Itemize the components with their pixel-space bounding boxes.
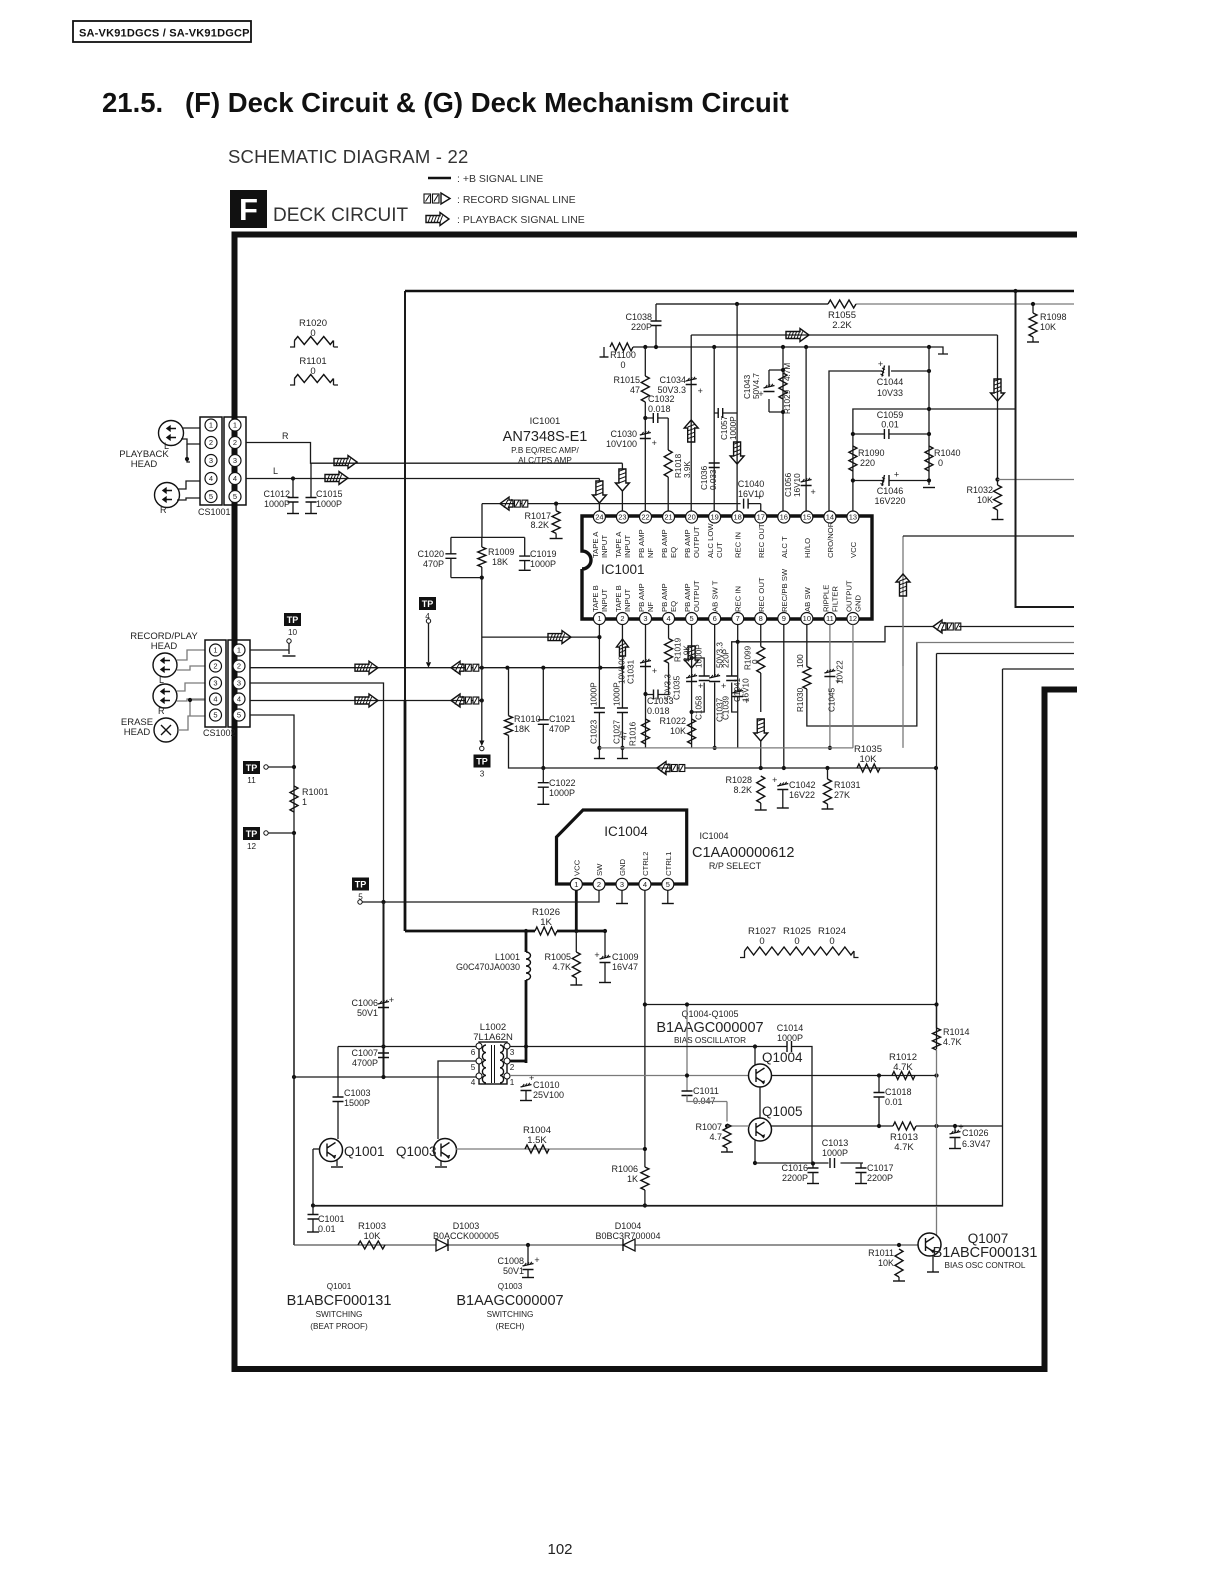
svg-text:IC1001: IC1001 <box>601 562 645 577</box>
IC1001 pin 22 <box>640 511 652 523</box>
svg-text:C1019: C1019 <box>530 549 557 559</box>
model number box <box>73 21 251 42</box>
svg-text:(RECH): (RECH) <box>496 1322 525 1331</box>
svg-text:220P: 220P <box>631 322 652 332</box>
resistor R1098 <box>1032 304 1034 342</box>
wire +B top rail <box>405 290 1074 293</box>
resistor R1005 <box>575 931 577 952</box>
wire C1020/R1009/C1019 rail <box>451 504 525 538</box>
capacitor C1027 <box>617 708 628 713</box>
wire main vertical from top border <box>404 291 406 700</box>
svg-text:220: 220 <box>860 458 875 468</box>
resistor R1003 <box>358 1241 385 1249</box>
IC1001 pin 12 <box>847 613 859 625</box>
svg-text:4: 4 <box>666 614 670 623</box>
svg-text:C1006: C1006 <box>351 998 378 1008</box>
wire playback L signal <box>246 478 599 480</box>
svg-text:R/P SELECT: R/P SELECT <box>709 861 762 871</box>
record arrow down pin18 <box>730 442 744 464</box>
svg-text:C1032: C1032 <box>648 394 675 404</box>
svg-text:1: 1 <box>302 797 307 807</box>
svg-text:C1043: C1043 <box>743 374 752 399</box>
svg-text:OUTPUT: OUTPUT <box>692 526 701 558</box>
svg-text:AN7348S-E1: AN7348S-E1 <box>503 429 588 445</box>
svg-text:12: 12 <box>247 842 257 851</box>
svg-text:C1031: C1031 <box>627 659 636 684</box>
svg-text:4: 4 <box>213 695 217 704</box>
svg-text:10V100: 10V100 <box>606 439 637 449</box>
svg-text:4: 4 <box>237 695 241 704</box>
svg-text:8.2K: 8.2K <box>733 785 752 795</box>
capacitor C1046 <box>853 471 929 485</box>
svg-text:+: + <box>534 1255 539 1265</box>
svg-text:3: 3 <box>213 679 217 688</box>
record arrow up pin2 <box>616 639 628 656</box>
test point TP3 <box>481 578 483 741</box>
svg-text:TP: TP <box>476 757 488 767</box>
svg-text:3: 3 <box>233 456 237 465</box>
svg-text:Q1004-Q1005: Q1004-Q1005 <box>681 1009 738 1019</box>
svg-text:C1018: C1018 <box>885 1087 912 1097</box>
transistor Q1003 <box>434 1139 457 1162</box>
wire pin19 branch <box>713 347 715 516</box>
resistor R1031 <box>824 779 832 804</box>
svg-text:Q1003: Q1003 <box>396 1144 437 1159</box>
svg-text:ALC LOW: ALC LOW <box>706 523 715 558</box>
svg-text:GND: GND <box>853 594 862 612</box>
IC1004 pin3 ground <box>621 891 623 904</box>
IC1001 pin 5 <box>686 613 698 625</box>
wire pin11 leg <box>829 625 831 748</box>
wire pin4 leg / resistor R1019 <box>668 625 670 695</box>
wire pin20 branch <box>690 335 692 516</box>
svg-text:B1AAGC000007: B1AAGC000007 <box>656 1020 763 1036</box>
svg-text:TP: TP <box>422 599 434 609</box>
capacitor C1034 <box>686 379 697 385</box>
svg-text:+: + <box>652 438 657 448</box>
resistor R1006 <box>641 1167 649 1190</box>
svg-text:5: 5 <box>237 711 241 720</box>
svg-text:15: 15 <box>803 513 811 522</box>
wire L1002 pin4 / bus <box>294 1076 476 1078</box>
wire CS1002 pin2 (record L) <box>250 667 623 669</box>
svg-text:1: 1 <box>213 646 217 655</box>
wire L1002 pin5 to Q1003 <box>438 1061 476 1139</box>
wire x936 gray lower <box>936 1050 938 1238</box>
wire CS1002 pin4 (record R) <box>250 700 482 702</box>
svg-text:R1028: R1028 <box>725 775 752 785</box>
svg-text:10K: 10K <box>878 1258 894 1268</box>
resistor R1012 <box>892 1072 915 1080</box>
IC1001 pin 10 <box>801 613 813 625</box>
legend record signal line <box>424 194 431 203</box>
svg-text:D1004: D1004 <box>615 1221 642 1231</box>
svg-text:+: + <box>810 487 815 497</box>
svg-text:10K: 10K <box>860 754 878 765</box>
capacitor C1022 <box>541 766 545 770</box>
wire Q1005 emitter down <box>754 1141 756 1164</box>
svg-text:C1003: C1003 <box>344 1088 371 1098</box>
record arrow left <box>451 661 464 674</box>
playback down arrow pin24 <box>592 481 606 503</box>
wire Q1005 emitter rail <box>772 1125 1003 1127</box>
resistor R1025 <box>781 947 818 955</box>
svg-text:SW: SW <box>595 863 604 876</box>
wire y642.5 to edge <box>916 642 1074 644</box>
record arrow left y768 <box>657 762 670 775</box>
svg-text:C1039: C1039 <box>722 695 731 720</box>
svg-text:24: 24 <box>595 513 603 522</box>
svg-text:CS1001: CS1001 <box>198 507 231 517</box>
svg-text:(BEAT PROOF): (BEAT PROOF) <box>310 1322 368 1331</box>
capacitor C1017 <box>860 1164 862 1169</box>
resistor R1011 <box>897 1243 901 1247</box>
wire head L to CS1001 <box>181 428 200 444</box>
svg-text:2200P: 2200P <box>867 1173 893 1183</box>
svg-text:R1010: R1010 <box>514 714 541 724</box>
capacitor C1015 <box>310 463 312 513</box>
IC1001 pin 23 <box>616 511 628 523</box>
svg-text:1000P: 1000P <box>530 559 556 569</box>
svg-text:1000P: 1000P <box>777 1033 803 1043</box>
svg-text:+: + <box>721 681 726 691</box>
svg-text:Q1005: Q1005 <box>762 1104 803 1119</box>
svg-text:16V220: 16V220 <box>874 496 905 506</box>
svg-text:+: + <box>652 666 657 676</box>
svg-text:1: 1 <box>233 421 237 430</box>
svg-text:C1011: C1011 <box>693 1086 719 1096</box>
svg-text:5: 5 <box>209 492 213 501</box>
svg-text:1000P: 1000P <box>316 499 342 509</box>
svg-text:1: 1 <box>237 646 241 655</box>
IC1004 pin 2 SW <box>593 878 605 890</box>
svg-text:102: 102 <box>547 1541 572 1558</box>
svg-text:16V10: 16V10 <box>742 678 751 702</box>
record arrow up pin20 <box>684 420 698 442</box>
connector CS1001 <box>200 417 222 505</box>
svg-text:5: 5 <box>233 492 237 501</box>
wires heads to CS1002 <box>177 650 205 670</box>
wire pin12 leg <box>852 625 854 748</box>
svg-text:Q1001: Q1001 <box>327 1282 352 1291</box>
wire pin8 leg / resistor R1099 <box>760 625 762 713</box>
svg-text:10: 10 <box>803 614 811 623</box>
svg-text:P.B EQ/REC AMP/: P.B EQ/REC AMP/ <box>511 446 579 455</box>
svg-text:GND: GND <box>618 858 627 876</box>
stub right of rail <box>929 347 943 354</box>
svg-text:PB AMP: PB AMP <box>683 529 692 558</box>
svg-text:11: 11 <box>247 776 256 785</box>
svg-text:C1010: C1010 <box>533 1080 560 1090</box>
resistor R1014 <box>933 1028 941 1050</box>
svg-text:L: L <box>273 466 278 476</box>
svg-text:R1040: R1040 <box>934 448 961 458</box>
wire L1002 pin3 <box>510 1046 645 1048</box>
svg-text:16V10: 16V10 <box>793 473 802 497</box>
svg-text:10V22: 10V22 <box>835 660 844 684</box>
svg-text:3: 3 <box>643 614 647 623</box>
svg-text:L1001: L1001 <box>495 952 520 962</box>
svg-text:0: 0 <box>759 936 764 947</box>
IC1001 pin 16 <box>778 511 790 523</box>
svg-text:R1030: R1030 <box>796 687 805 712</box>
svg-text:+: + <box>594 950 599 960</box>
svg-text:C1012: C1012 <box>263 489 290 499</box>
svg-text:C1007: C1007 <box>351 1048 378 1058</box>
wire CS1002 pin5 <box>250 715 294 1245</box>
svg-text:0.01: 0.01 <box>885 1097 903 1107</box>
capacitor C1001 <box>312 1206 314 1233</box>
IC1001 chip body <box>582 516 872 619</box>
svg-text:TP: TP <box>287 615 299 625</box>
wire L1002 pin6 <box>338 1046 476 1048</box>
resistor R1007 <box>723 1124 731 1148</box>
svg-text:1000P: 1000P <box>612 682 621 706</box>
svg-text:12: 12 <box>849 614 857 623</box>
capacitor C1020 <box>450 537 452 577</box>
wire bias top rail <box>645 1004 937 1006</box>
svg-text:CS1002: CS1002 <box>203 728 236 738</box>
svg-text:3: 3 <box>480 770 485 779</box>
resistor R1028 <box>757 776 765 803</box>
resistor R1004 <box>525 1145 549 1153</box>
svg-text:16V47: 16V47 <box>612 962 638 972</box>
record arrow right y637 <box>548 631 571 644</box>
IC1001 pin 9 <box>778 613 790 625</box>
svg-text:+: + <box>389 995 394 1005</box>
IC1001 pin 24 <box>593 511 605 523</box>
record/play head R <box>153 684 177 708</box>
svg-text:ALC/TPS AMP: ALC/TPS AMP <box>518 456 572 465</box>
svg-text:2: 2 <box>233 438 237 447</box>
svg-text:Q1001: Q1001 <box>344 1144 385 1159</box>
capacitor C1003 <box>337 1047 339 1140</box>
capacitor C1013 <box>830 1158 835 1168</box>
svg-text:C1059: C1059 <box>877 410 904 420</box>
capacitor C1023 <box>594 708 605 713</box>
resistor R1022 <box>688 719 696 744</box>
svg-text:6: 6 <box>471 1048 476 1057</box>
svg-text:C1008: C1008 <box>497 1256 524 1266</box>
svg-text:C1021: C1021 <box>549 714 576 724</box>
capacitor C1035 <box>686 676 697 682</box>
transistor Q1005 <box>749 1118 772 1141</box>
svg-text:C1057: C1057 <box>720 415 729 440</box>
svg-text:27K: 27K <box>834 790 850 800</box>
record arrow left y503.6 <box>500 497 513 510</box>
svg-text:REC/PB SW: REC/PB SW <box>780 568 789 612</box>
svg-text:CUT: CUT <box>715 542 724 558</box>
svg-text:1000P: 1000P <box>589 682 598 706</box>
svg-text:SA-VK91DGCS / SA-VK91DGCP: SA-VK91DGCS / SA-VK91DGCP <box>79 28 250 40</box>
svg-text:R: R <box>282 431 289 441</box>
erase head <box>154 718 178 742</box>
svg-text:CTRL2: CTRL2 <box>641 852 650 876</box>
svg-text:EQ: EQ <box>669 547 678 558</box>
svg-text:C1013: C1013 <box>822 1138 849 1148</box>
svg-text:1: 1 <box>574 880 578 889</box>
transistor Q1001 <box>320 1139 343 1162</box>
svg-text:R1006: R1006 <box>611 1164 638 1174</box>
wire pin14 branch / capacitor C1044 <box>829 371 929 516</box>
wire pin13 branch <box>853 409 1016 516</box>
test point TP12 <box>243 827 260 840</box>
svg-text:HEAD: HEAD <box>151 641 178 652</box>
svg-text:3: 3 <box>510 1048 515 1057</box>
svg-text:R1022: R1022 <box>659 716 686 726</box>
svg-text:D1003: D1003 <box>453 1221 480 1231</box>
svg-text:50V4.7: 50V4.7 <box>752 373 761 399</box>
svg-text:: PLAYBACK SIGNAL LINE: : PLAYBACK SIGNAL LINE <box>457 214 585 226</box>
svg-text:C1020: C1020 <box>417 549 444 559</box>
wire pin15 branch <box>805 347 807 516</box>
test point TP4 <box>419 597 436 610</box>
svg-text:4: 4 <box>471 1078 476 1087</box>
svg-text:ALC T: ALC T <box>780 536 789 558</box>
svg-text:OUTPUT: OUTPUT <box>844 580 853 612</box>
svg-text:C1044: C1044 <box>877 377 904 387</box>
wire pin10 leg / resistor R1030 <box>807 625 917 727</box>
IC1001 pin 15 <box>801 511 813 523</box>
resistor R1055 <box>828 300 856 308</box>
svg-text:+: + <box>878 359 883 369</box>
resistor R1027 <box>740 951 745 958</box>
IC1001 pin 18 <box>732 511 744 523</box>
record arrow up x903 <box>896 574 910 596</box>
svg-text:220P: 220P <box>722 648 731 668</box>
svg-text:Q1007: Q1007 <box>968 1231 1009 1246</box>
svg-text:2: 2 <box>597 880 601 889</box>
svg-text:4: 4 <box>233 474 237 483</box>
gray ground bus under IC <box>599 747 853 749</box>
resistor R1026 <box>535 927 557 935</box>
record arrow down pin8 <box>754 719 768 741</box>
resistor R1017 <box>555 504 557 511</box>
wire pin7 leg <box>737 625 739 642</box>
wire pin7 to right <box>738 627 933 642</box>
IC1004 pin 4 CTRL2 <box>639 878 651 890</box>
svg-text:+: + <box>698 681 703 691</box>
svg-text:3: 3 <box>237 679 241 688</box>
svg-text:1000P: 1000P <box>549 788 575 798</box>
svg-text:25V100: 25V100 <box>533 1090 564 1100</box>
svg-text:TAPE A: TAPE A <box>591 531 600 558</box>
svg-text:R1032: R1032 <box>966 485 993 495</box>
svg-text:8: 8 <box>759 614 763 623</box>
svg-text:R: R <box>160 505 167 515</box>
svg-text:47: 47 <box>620 730 629 740</box>
diode D1003 <box>436 1239 448 1251</box>
svg-text:10K: 10K <box>670 726 686 736</box>
svg-text:20: 20 <box>687 513 695 522</box>
capacitor C1042 <box>777 784 788 790</box>
svg-text:10K: 10K <box>364 1231 382 1242</box>
svg-text:14: 14 <box>826 513 834 522</box>
svg-text:EQ: EQ <box>669 601 678 612</box>
svg-text:4: 4 <box>209 474 213 483</box>
wire pin1 leg <box>598 625 600 759</box>
svg-text:PB AMP: PB AMP <box>637 529 646 558</box>
resistor R1001 <box>290 786 298 812</box>
record/play head L <box>153 653 177 677</box>
svg-text:SWITCHING: SWITCHING <box>487 1310 534 1319</box>
playback arrow on R wire <box>334 456 357 469</box>
svg-text:SWITCHING: SWITCHING <box>316 1310 363 1319</box>
svg-text:(F) Deck Circuit & (G) Deck Me: (F) Deck Circuit & (G) Deck Mechanism Ci… <box>185 87 789 118</box>
capacitor C1019 <box>524 537 526 569</box>
svg-text:4700P: 4700P <box>352 1058 378 1068</box>
svg-text:C1058: C1058 <box>695 695 704 720</box>
wire Q1001 base vertical <box>312 1149 314 1206</box>
svg-text:F: F <box>239 192 258 227</box>
wire C1020/R1009 bottom rail <box>451 577 482 579</box>
svg-text:R1001: R1001 <box>302 787 329 797</box>
capacitor C1056 <box>801 480 812 486</box>
svg-text:C1014: C1014 <box>777 1023 804 1033</box>
svg-text:1: 1 <box>597 614 601 623</box>
svg-text:50V3.3: 50V3.3 <box>657 385 686 395</box>
wire record line y637 <box>482 636 601 638</box>
wire pin22 branch / resistor R1015 <box>644 347 646 516</box>
resistor R1010 <box>508 668 510 716</box>
svg-text:PB AMP: PB AMP <box>660 583 669 612</box>
test point TP11 <box>243 761 260 774</box>
svg-text:R1090: R1090 <box>858 448 885 458</box>
svg-text:9: 9 <box>782 614 786 623</box>
capacitor C1039 <box>732 642 738 712</box>
svg-text:2200P: 2200P <box>782 1173 808 1183</box>
svg-text:Q1003: Q1003 <box>498 1282 523 1291</box>
connector CS1002 <box>205 640 226 727</box>
svg-text:REC IN: REC IN <box>734 586 743 612</box>
capacitor C1058 <box>692 658 705 712</box>
svg-text:7: 7 <box>736 614 740 623</box>
wire x1002 loop <box>313 669 1074 1206</box>
capacitor C1057 <box>714 412 737 414</box>
capacitor C1038 <box>655 304 657 347</box>
record arrow right <box>355 694 378 707</box>
svg-text:Q1004: Q1004 <box>762 1050 803 1065</box>
svg-text:PB AMP: PB AMP <box>683 583 692 612</box>
svg-text:B1ABCF000131: B1ABCF000131 <box>287 1293 392 1309</box>
capacitor C1041 <box>732 691 743 697</box>
IC1001 pin 11 <box>824 613 836 625</box>
svg-text:4.7K: 4.7K <box>894 1142 914 1153</box>
svg-text:0.01: 0.01 <box>881 420 899 430</box>
IC1004 pin5 ground <box>667 891 669 904</box>
svg-text:+: + <box>772 775 777 785</box>
svg-text:0.01: 0.01 <box>318 1224 336 1234</box>
svg-text:10K: 10K <box>1040 322 1056 332</box>
svg-text:2: 2 <box>213 662 217 671</box>
svg-text:R1015: R1015 <box>613 375 640 385</box>
svg-text:16V22: 16V22 <box>789 790 815 800</box>
svg-text:1K: 1K <box>627 1174 638 1184</box>
svg-text:TAPE B: TAPE B <box>591 585 600 612</box>
svg-text:4.7M: 4.7M <box>783 363 792 381</box>
wire bottom bus y1245 <box>294 1244 899 1246</box>
svg-text:470P: 470P <box>423 559 444 569</box>
svg-text:R1011: R1011 <box>868 1248 894 1258</box>
svg-text:R1014: R1014 <box>943 1027 970 1037</box>
wire IC1004 pin4 CTRL2 <box>644 891 646 1168</box>
svg-text:0.018: 0.018 <box>647 706 670 716</box>
capacitor C1007 <box>381 1044 385 1048</box>
svg-text:+: + <box>894 470 899 480</box>
svg-text:HI/LO: HI/LO <box>803 538 812 558</box>
svg-text:PB AMP: PB AMP <box>637 583 646 612</box>
svg-text:3: 3 <box>209 456 213 465</box>
